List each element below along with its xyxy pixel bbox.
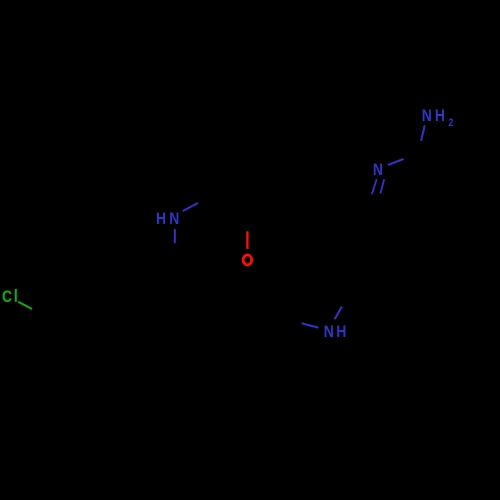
svg-text:N: N [373, 161, 383, 180]
bond N-C down-left (blue half) [421, 125, 425, 140]
svg-text:N: N [169, 210, 179, 229]
atom label NH2 (primary amine) [422, 107, 454, 130]
svg-text:H: H [435, 107, 445, 126]
svg-text:N: N [422, 107, 432, 126]
bond N-C left (blue half) [302, 323, 319, 327]
atom label NH (indole nitrogen) [324, 323, 347, 342]
double bond N=C line a (blue half) [372, 179, 377, 194]
bond Cl-C (green half) [18, 302, 32, 309]
bond N-C2 up-right (blue half) [388, 159, 404, 165]
atom label N (pyridine nitrogen) [373, 161, 383, 180]
atom label HN (amide nitrogen) [156, 210, 179, 229]
svg-text:H: H [336, 323, 346, 342]
svg-text:H: H [156, 210, 166, 229]
double bond N=C line b (blue half) [380, 179, 384, 193]
atom label Cl (chlorine) [2, 288, 17, 307]
svg-text:2: 2 [448, 117, 453, 129]
bond N-C down (blue half) [174, 229, 176, 243]
svg-text:N: N [324, 323, 334, 342]
bond C-O vertical (red half) [246, 231, 248, 249]
svg-text:C: C [2, 288, 12, 307]
bond N-C up-right (blue half) [183, 203, 198, 211]
atom label O (carbonyl oxygen) [243, 255, 252, 265]
bond N-C up-right (blue half) [335, 307, 342, 320]
